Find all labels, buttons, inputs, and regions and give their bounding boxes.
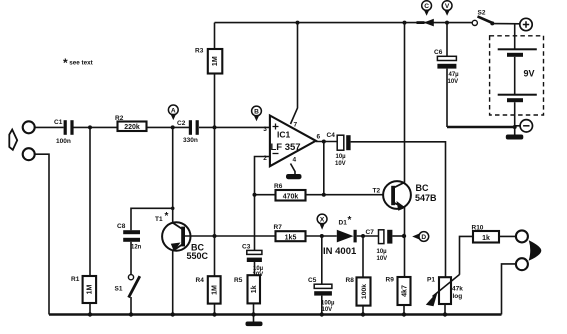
svg-text:log: log: [453, 293, 463, 300]
svg-text:R2: R2: [115, 115, 124, 122]
svg-text:R3: R3: [195, 48, 204, 55]
svg-text:R1: R1: [71, 276, 80, 283]
resistor R7: [274, 224, 337, 242]
svg-text:R6: R6: [274, 183, 283, 190]
wire: R2 to C2: [147, 126, 190, 128]
node: base/bias junction: [213, 234, 217, 238]
svg-text:330n: 330n: [183, 137, 198, 144]
svg-text:9V: 9V: [524, 69, 535, 79]
svg-text:BC: BC: [416, 183, 429, 193]
note: see text: [63, 56, 94, 70]
svg-text:100k: 100k: [361, 284, 368, 299]
svg-text:R10: R10: [472, 225, 484, 232]
svg-text:D1: D1: [339, 220, 348, 227]
svg-text:C7: C7: [366, 229, 375, 236]
node: rail R4: [212, 312, 216, 316]
marker X: [317, 214, 327, 230]
svg-text:A: A: [171, 107, 176, 114]
transistor T2: [373, 181, 438, 211]
node: pin7 on rail: [296, 21, 300, 25]
op-amp IC1: [263, 116, 320, 167]
node A junction: [171, 125, 175, 129]
wire: T2 emitter down to R9: [404, 207, 406, 277]
wire: output node down to R6 row: [323, 142, 325, 195]
svg-text:10V: 10V: [335, 161, 346, 167]
svg-text:IN 4001: IN 4001: [323, 246, 357, 257]
svg-text:R7: R7: [274, 224, 283, 231]
svg-text:1M: 1M: [212, 285, 219, 295]
svg-text:P1: P1: [427, 277, 435, 284]
node: R8 junction: [361, 234, 365, 238]
node: rail C5: [320, 312, 324, 316]
svg-text:V: V: [445, 3, 450, 10]
svg-text:C2: C2: [177, 120, 186, 127]
input jack: [9, 121, 34, 160]
wire: T1 emitter down to rail: [172, 251, 174, 315]
wire: IC1 pin6 output: [316, 141, 337, 143]
ground bar: battery minus rail stub: [506, 135, 524, 140]
wire: S2 to battery plus: [492, 23, 520, 25]
switch S1: [115, 275, 140, 315]
svg-text:550C: 550C: [187, 251, 209, 261]
node: T2 collector on rail: [403, 21, 407, 25]
svg-text:1k5: 1k5: [285, 235, 297, 242]
svg-text:3: 3: [263, 126, 267, 133]
resistor R4: [196, 127, 221, 314]
svg-text:S1: S1: [115, 286, 123, 293]
svg-text:10V: 10V: [377, 256, 388, 262]
svg-text:B: B: [254, 108, 259, 115]
node: pin2/R6 junction: [253, 193, 257, 197]
wire: IC1 pin4 stub: [291, 164, 296, 175]
arrow: supply current arrow on rail: [417, 19, 434, 27]
svg-text:S2: S2: [478, 10, 486, 17]
terminal: battery minus: [515, 120, 533, 132]
capacitor C2: [177, 120, 199, 144]
node: output junction: [322, 140, 326, 144]
wire: C1 to R2: [73, 126, 117, 128]
node: rail T1 emitter: [171, 312, 175, 316]
capacitor C4: [327, 132, 351, 167]
svg-text:10µ: 10µ: [377, 249, 388, 255]
svg-text:T2: T2: [373, 188, 381, 195]
svg-text:C6: C6: [434, 49, 443, 56]
svg-text:*: *: [63, 56, 68, 70]
svg-text:C: C: [424, 3, 429, 10]
svg-text:R8: R8: [346, 277, 355, 284]
svg-text:R5: R5: [234, 277, 243, 284]
svg-text:LF 357: LF 357: [271, 142, 301, 153]
node X junction: [320, 234, 324, 238]
wire: IC1 pin2 loop: [255, 157, 270, 251]
wire: top supply rail: [215, 22, 473, 24]
svg-text:6: 6: [317, 134, 321, 141]
wire: bottom ground rail: [49, 313, 502, 316]
svg-text:C3: C3: [242, 244, 251, 251]
capacitor C6: [434, 23, 459, 127]
diode D1: [323, 215, 379, 257]
capacitor C1: [54, 119, 74, 145]
svg-text:10V: 10V: [322, 307, 333, 313]
svg-text:T1: T1: [155, 216, 163, 223]
wire: C4 to volume pot: [351, 142, 446, 277]
svg-text:47µ: 47µ: [449, 72, 460, 78]
ground bar: IC1 pin4: [286, 174, 302, 179]
wire: output sleeve to rail: [502, 264, 517, 315]
wire: T1 base row to R7: [185, 235, 276, 237]
resistor R3: [195, 23, 222, 128]
svg-text:X: X: [320, 216, 325, 223]
node: rail P1: [443, 312, 447, 316]
capacitor C8: [117, 208, 173, 274]
node: R3/R4 junction on signal row: [213, 125, 217, 129]
svg-text:220k: 220k: [124, 124, 140, 131]
svg-text:4k7: 4k7: [401, 285, 408, 297]
marker A: [168, 105, 178, 120]
svg-text:547B: 547B: [415, 193, 437, 203]
svg-text:7: 7: [294, 122, 298, 129]
svg-text:1M: 1M: [212, 56, 219, 66]
node: C6 on rail: [445, 21, 449, 25]
node: minus wire junction: [513, 125, 517, 129]
marker C: [422, 1, 432, 16]
node: rail R9: [402, 312, 406, 316]
svg-text:1k: 1k: [251, 285, 258, 293]
svg-text:10µ: 10µ: [336, 154, 347, 160]
svg-text:100n: 100n: [56, 138, 71, 145]
svg-text:100µ: 100µ: [321, 301, 335, 307]
marker B: [252, 106, 262, 121]
potentiometer P1: [426, 236, 473, 314]
resistor R6: [255, 183, 391, 201]
svg-text:12n: 12n: [131, 245, 142, 251]
node: rail R5: [251, 312, 255, 316]
svg-text:D: D: [421, 234, 426, 241]
svg-text:R4: R4: [196, 277, 205, 284]
terminal: battery plus: [520, 18, 532, 30]
wire: battery minus to C6 (thick): [447, 126, 515, 129]
wire: C2 to IC1 pin3: [199, 126, 270, 128]
capacitor C3: [242, 244, 264, 279]
svg-text:470k: 470k: [283, 194, 299, 201]
capacitor C7: [366, 229, 405, 262]
svg-text:1M: 1M: [87, 284, 94, 294]
node: C8 tap on collector: [171, 207, 175, 211]
wire: input sleeve down to rail: [35, 154, 49, 314]
wire: IC1 pin7 to rail: [291, 23, 298, 124]
wire: T1 collector up to node A: [172, 127, 174, 222]
resistor R8: [346, 236, 371, 315]
svg-text:IC1: IC1: [277, 130, 291, 140]
battery BT1 9V: [490, 24, 544, 135]
node: R6/output junction: [322, 193, 326, 197]
svg-text:C5: C5: [308, 277, 317, 284]
marker D: [412, 232, 428, 242]
node: rail S1: [129, 312, 133, 316]
wire: input tip to C1: [35, 126, 64, 128]
svg-text:47k: 47k: [452, 286, 463, 293]
svg-text:C4: C4: [327, 132, 336, 139]
resistor R10: [472, 225, 517, 243]
transistor T1: [155, 211, 209, 261]
node: rail R1: [88, 312, 92, 316]
svg-text:R9: R9: [386, 277, 395, 284]
svg-text:C1: C1: [54, 119, 63, 126]
node: emitter/C7/R9 junction: [402, 234, 406, 238]
svg-text:1k: 1k: [482, 235, 490, 242]
ground bar: below R5: [246, 322, 263, 327]
resistor R2: [115, 115, 147, 131]
resistor R5: [234, 275, 260, 314]
capacitor C5: [308, 236, 335, 315]
svg-text:4: 4: [293, 157, 297, 164]
resistor R9: [386, 277, 411, 315]
switch S2: [472, 10, 494, 26]
svg-text:*: *: [165, 211, 169, 222]
svg-text:*: *: [348, 215, 352, 226]
node: rail R8: [361, 312, 365, 316]
svg-text:10µ: 10µ: [253, 266, 264, 272]
svg-text:10V: 10V: [448, 79, 459, 85]
output jack: [516, 230, 541, 270]
svg-text:C8: C8: [117, 223, 126, 230]
marker V: [442, 1, 452, 16]
svg-text:see text: see text: [69, 60, 93, 67]
node: C1/R1 junction: [88, 125, 92, 129]
wire: T2 collector to rail: [404, 23, 406, 183]
resistor R1: [71, 127, 96, 314]
